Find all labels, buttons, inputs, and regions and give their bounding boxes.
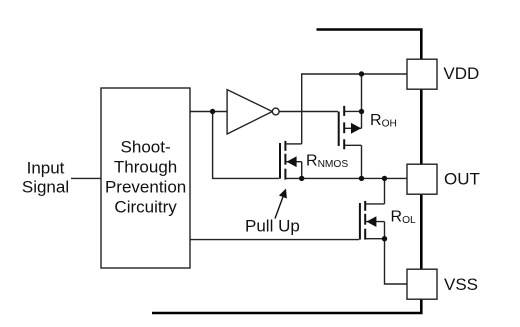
svg-text:VDD: VDD bbox=[443, 64, 479, 83]
svg-text:Prevention: Prevention bbox=[105, 177, 186, 196]
svg-text:Circuitry: Circuitry bbox=[114, 197, 177, 216]
svg-text:Shoot-: Shoot- bbox=[121, 138, 171, 157]
svg-text:Through: Through bbox=[114, 158, 177, 177]
svg-text:Pull Up: Pull Up bbox=[245, 217, 300, 236]
svg-text:Signal: Signal bbox=[22, 178, 69, 197]
svg-text:RNMOS: RNMOS bbox=[306, 153, 348, 171]
svg-text:OUT: OUT bbox=[444, 169, 480, 188]
svg-text:ROL: ROL bbox=[391, 209, 416, 227]
svg-text:ROH: ROH bbox=[370, 112, 397, 130]
svg-text:Input: Input bbox=[27, 159, 65, 178]
svg-text:VSS: VSS bbox=[444, 275, 478, 294]
